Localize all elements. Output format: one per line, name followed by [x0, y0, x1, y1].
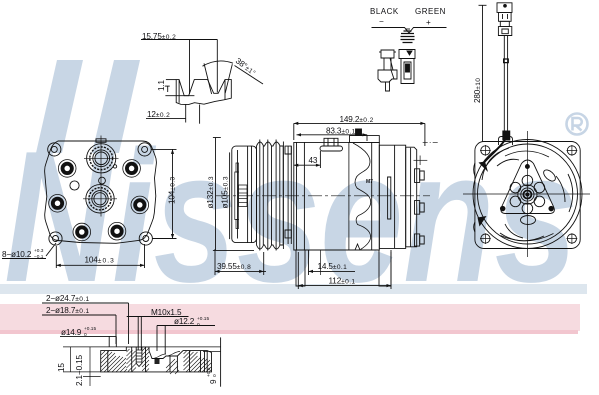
rear port boss [350, 129, 380, 142]
svg-text:+0.15: +0.15 [197, 316, 209, 322]
svg-text:83.3±0.1: 83.3±0.1 [326, 126, 356, 135]
svg-text:2.1−0.15: 2.1−0.15 [75, 355, 84, 386]
svg-text:15: 15 [57, 363, 66, 372]
tiny circle [113, 165, 116, 168]
hub ring circles [510, 175, 545, 213]
dimension 15.75±0.2 [141, 40, 217, 95]
rear head [379, 145, 405, 248]
svg-text:+0.3: +0.3 [34, 248, 44, 254]
svg-text:+: + [426, 18, 431, 27]
svg-text:8−ø10.2: 8−ø10.2 [2, 250, 32, 259]
corner bolt circles [480, 145, 577, 244]
svg-text:38°±1°: 38°±1° [234, 56, 258, 77]
dimension 14.5 [309, 250, 356, 275]
svg-text:ø105±0.3: ø105±0.3 [220, 176, 229, 208]
corner hole bottom-right [139, 232, 152, 245]
dimension o132 [213, 138, 254, 251]
dimension 149.2 [294, 122, 425, 146]
svg-text:39.55±0.8: 39.55±0.8 [217, 262, 251, 271]
dimension 83.3 [297, 133, 368, 141]
svg-text:1.1: 1.1 [157, 79, 166, 91]
svg-text:112±0.1: 112±0.1 [329, 277, 356, 286]
body [294, 142, 380, 250]
label lines 24.7 [42, 303, 129, 344]
thread bore [136, 347, 142, 367]
label lines 18.7 [42, 315, 116, 344]
dimension 43 [294, 151, 321, 168]
dimension 104 bottom [56, 244, 144, 268]
svg-text:−: − [379, 17, 384, 26]
svg-text:ø132±0.3: ø132±0.3 [206, 176, 215, 208]
rear plate [406, 142, 440, 246]
centerline [216, 195, 430, 197]
plug black [378, 50, 397, 91]
svg-text:12±0.2: 12±0.2 [147, 110, 170, 119]
watermark Nissens [4, 60, 588, 321]
svg-text:ø12.2: ø12.2 [174, 317, 195, 326]
valve plate [388, 177, 391, 219]
svg-text:14.5±0.1: 14.5±0.1 [318, 262, 348, 271]
leader 38 [235, 66, 264, 85]
key block [155, 358, 160, 364]
wire [503, 36, 505, 133]
wire entry tab [499, 137, 513, 146]
hub splines [235, 163, 247, 229]
svg-text:GREEN: GREEN [415, 7, 446, 16]
rear fittings [414, 156, 428, 247]
top tab [96, 139, 106, 143]
leader 8-o10.2 [46, 243, 56, 256]
svg-text:0: 0 [197, 322, 200, 328]
top port fitting [320, 138, 343, 151]
svg-text:104±0.3: 104±0.3 [168, 176, 177, 204]
triangle corner bolts [500, 206, 505, 211]
svg-text:−0.1: −0.1 [34, 254, 44, 260]
svg-text:104±0.3: 104±0.3 [85, 255, 115, 264]
petal top-right [542, 168, 558, 183]
groove profile outline [176, 80, 231, 105]
corner hole bottom-left [49, 232, 62, 245]
svg-text:0: 0 [84, 332, 87, 338]
svg-text:0: 0 [212, 374, 218, 377]
corner hole top-left [48, 143, 61, 156]
svg-text:+0.5: +0.5 [206, 367, 212, 377]
label lines 12.2 [157, 326, 215, 355]
svg-text:M7: M7 [366, 179, 373, 185]
cover triangle [501, 160, 554, 214]
dimension 39.55 [215, 249, 266, 275]
petal bottom [521, 216, 536, 225]
dark bosses [51, 162, 146, 239]
left edge bumps [474, 163, 475, 232]
plug green [399, 50, 415, 84]
left dims [63, 347, 101, 386]
svg-text:15.75±0.2: 15.75±0.2 [142, 32, 176, 41]
dimension 280±10 [482, 5, 484, 141]
svg-text:149.2±0.2: 149.2±0.2 [340, 115, 374, 124]
small circle left [70, 181, 79, 190]
label lines M10 [127, 317, 189, 351]
hatching [101, 347, 212, 374]
svg-text:ø14.9: ø14.9 [61, 328, 82, 337]
label lines 14.9 [60, 336, 116, 347]
rotor rear [283, 142, 291, 250]
watermark blue band [0, 284, 587, 294]
dimension 112 [298, 252, 391, 289]
inner verticals [107, 351, 109, 372]
clutch front plate [232, 146, 257, 243]
small circle center [99, 177, 106, 184]
casting waves [349, 142, 371, 250]
ports centerline vertical [100, 136, 102, 217]
svg-text:2−ø24.7±0.1: 2−ø24.7±0.1 [46, 294, 90, 303]
mounting plate [475, 142, 580, 249]
angle arc [203, 61, 234, 66]
svg-text:43: 43 [309, 156, 318, 165]
watermark pink band [0, 304, 580, 331]
connector housing [497, 3, 512, 13]
pulley outer circles [473, 140, 582, 249]
pulley grooves side [257, 140, 284, 251]
wire lead into view [484, 139, 506, 163]
port top [84, 144, 119, 173]
svg-text:9: 9 [209, 379, 218, 384]
dim 1.1 ticks [165, 80, 195, 96]
cover outer arms [482, 148, 573, 241]
hub center [518, 185, 537, 204]
dimension o105 [229, 152, 231, 239]
port middle [83, 185, 117, 213]
body outline [45, 141, 157, 243]
svg-text:+0.15: +0.15 [84, 326, 96, 332]
dimension 104 vertical [151, 149, 177, 238]
terminal symbol [401, 29, 415, 43]
svg-text:280±10: 280±10 [473, 78, 482, 103]
dimension 12±0.2 lines [146, 117, 186, 119]
feet [296, 244, 391, 286]
svg-text:BLACK: BLACK [370, 7, 399, 16]
wire end terminal [503, 131, 510, 140]
corner hole top-right [138, 143, 151, 156]
svg-text:2−ø18.7±0.1: 2−ø18.7±0.1 [46, 306, 90, 315]
svg-text:M10x1.5: M10x1.5 [151, 308, 182, 317]
ramp curves [152, 352, 180, 359]
section outline [63, 337, 221, 386]
wire line with notch [372, 28, 447, 34]
centerlines [463, 193, 590, 195]
angle flank extension lines [204, 63, 212, 94]
